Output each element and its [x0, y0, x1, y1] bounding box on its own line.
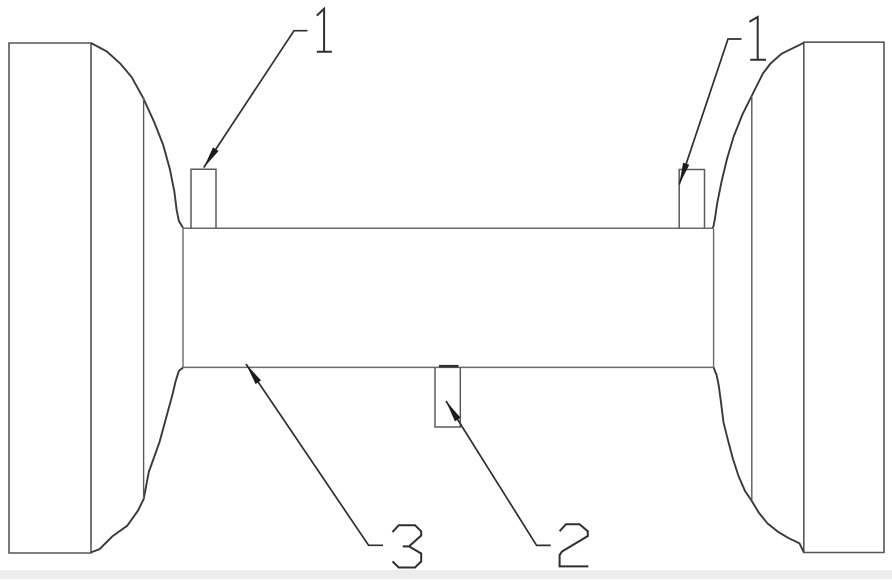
arrowhead label 1 left: [204, 147, 219, 167]
digit 1 left: [317, 9, 332, 52]
bottom key slot rectangle: [435, 367, 460, 427]
arrowhead label 1 right: [679, 163, 689, 185]
shaft bottom edge: [183, 366, 714, 368]
digit 3: [393, 525, 422, 567]
left key tab rectangle: [191, 169, 216, 228]
right key tab rectangle: [679, 170, 704, 229]
left flange disc rectangle: [9, 43, 91, 553]
left flange inner face edge line: [143, 97, 145, 499]
arrowhead label 2: [446, 401, 461, 421]
right flange disc rectangle: [804, 42, 884, 552]
leader line label 1 left: [204, 31, 308, 168]
shaft left end edge: [182, 228, 184, 367]
leader line label 3: [246, 364, 383, 545]
leader line label 2: [446, 401, 551, 545]
right flange bottom profile curve: [714, 367, 804, 552]
arrowhead label 3: [246, 364, 261, 384]
bottom key slot dark top dash: [439, 365, 459, 368]
right flange inner face edge line: [751, 96, 753, 500]
digit 1 right: [749, 17, 766, 60]
leader line label 1 right: [679, 39, 741, 185]
shaft right end edge: [713, 228, 715, 367]
bottom scan strip: [0, 570, 892, 579]
left flange bottom profile curve: [91, 368, 183, 553]
shaft top edge: [183, 227, 714, 229]
digit 2: [560, 524, 589, 566]
left flange top profile curve: [91, 43, 183, 228]
right flange top profile curve: [713, 43, 804, 228]
